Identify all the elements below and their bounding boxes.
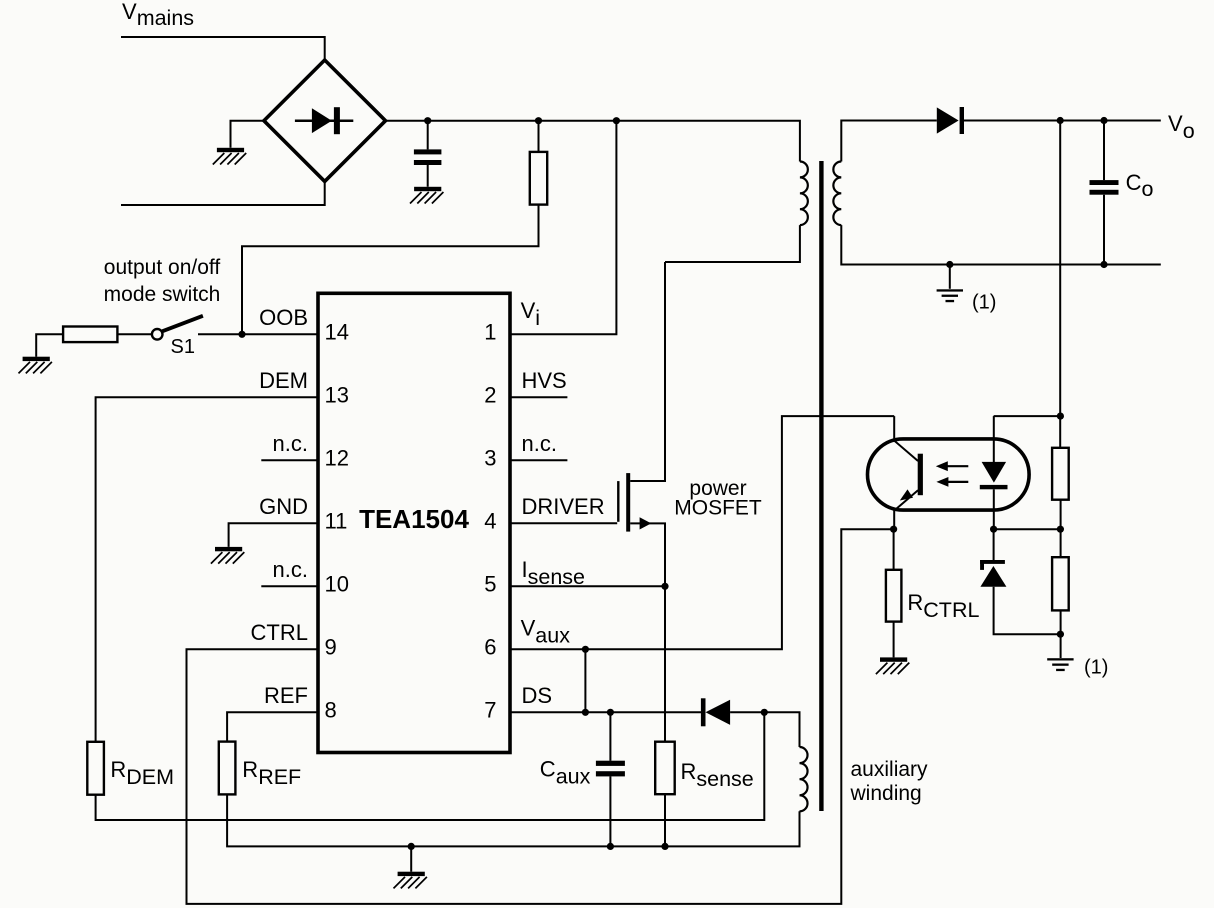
node Rsense bottom [661, 843, 668, 850]
wire RREF bottom / ground rail [227, 794, 799, 846]
svg-text:output on/off: output on/off [104, 256, 221, 279]
svg-text:14: 14 [325, 319, 349, 344]
capacitor (mains filter) [414, 149, 442, 165]
svg-text:CTRL: CTRL [251, 620, 308, 645]
svg-text:REF: REF [264, 683, 308, 708]
inductor transformer primary [800, 162, 808, 226]
wire LED anode [994, 415, 1061, 417]
capacitor Co [1090, 180, 1119, 195]
svg-text:RCTRL: RCTRL [907, 590, 979, 622]
node HV-cap [424, 117, 431, 124]
wire mains bottom [121, 180, 325, 205]
node divider top [1057, 413, 1064, 420]
svg-text:n.c.: n.c. [522, 431, 557, 456]
wire RCTRL leads [893, 529, 895, 657]
svg-text:(1): (1) [1084, 657, 1108, 679]
svg-text:6: 6 [484, 634, 496, 659]
svg-text:8: 8 [325, 697, 337, 722]
capacitor Caux [596, 761, 625, 777]
optocoupler LED [980, 416, 1008, 529]
svg-text:auxiliary: auxiliary [851, 758, 929, 781]
svg-text:n.c.: n.c. [273, 557, 308, 582]
svg-text:DEM: DEM [259, 368, 308, 393]
svg-text:7: 7 [484, 697, 496, 722]
wire sec ground stem [949, 265, 951, 289]
ground [211, 547, 244, 564]
svg-text:Vo: Vo [1168, 111, 1195, 143]
ground [19, 357, 52, 374]
svg-text:Rsense: Rsense [681, 759, 754, 791]
svg-text:TEA1504: TEA1504 [359, 504, 469, 534]
svg-text:2: 2 [484, 382, 496, 407]
wire feedback riser [1059, 121, 1061, 659]
svg-text:Co: Co [1126, 170, 1154, 201]
wire n.c. stub pin 3 [510, 459, 567, 461]
wire DEM [96, 397, 318, 742]
wire Vi [510, 121, 616, 335]
transistor power MOSFET [618, 262, 665, 586]
svg-text:winding: winding [850, 782, 922, 805]
svg-text:13: 13 [325, 382, 349, 407]
diode (output rectifier) [937, 107, 964, 134]
resistor RREF [219, 742, 236, 795]
svg-text:(1): (1) [972, 292, 996, 314]
wire to ground [36, 334, 63, 356]
wire GND pin 11 [229, 523, 318, 547]
svg-text:Vmains: Vmains [122, 0, 194, 30]
bridge rectifier [264, 60, 386, 181]
optocoupler body [868, 439, 1030, 510]
switch S1 [152, 316, 203, 340]
node feedback tap [1057, 117, 1064, 124]
svg-text:4: 4 [484, 508, 496, 533]
ground (1) secondary [937, 289, 963, 302]
resistor RDEM [87, 742, 104, 795]
resistor (startup, to OOB) [530, 152, 547, 205]
node divider mid [1057, 526, 1064, 533]
svg-text:MOSFET: MOSFET [674, 497, 762, 520]
diode (aux rectifier) [701, 698, 730, 726]
wire HVS stub pin 2 [510, 396, 567, 398]
wire n.c. stub pin 10 [261, 585, 318, 587]
wire cap lead [427, 121, 429, 187]
node HV-res [535, 117, 542, 124]
svg-text:Caux: Caux [540, 756, 591, 788]
wire REF [227, 712, 318, 741]
wire HV rail [386, 121, 800, 162]
svg-text:S1: S1 [171, 336, 195, 358]
svg-text:Isense: Isense [522, 557, 586, 589]
inductor transformer secondary [833, 162, 841, 226]
wire n.c. stub pin 12 [261, 459, 318, 461]
node Caux bottom [607, 843, 614, 850]
wire Vaux riser [510, 416, 894, 649]
svg-text:1: 1 [484, 319, 496, 344]
svg-text:DRIVER: DRIVER [522, 494, 605, 519]
wire [117, 333, 151, 335]
svg-text:n.c.: n.c. [273, 431, 308, 456]
svg-text:RDEM: RDEM [110, 757, 174, 789]
svg-text:OOB: OOB [259, 305, 308, 330]
wire Vo rail [964, 120, 1161, 122]
ground (1) divider [1047, 658, 1073, 671]
node Co bottom [1100, 261, 1107, 268]
optocoupler phototransistor [894, 416, 923, 529]
svg-text:HVS: HVS [522, 368, 567, 393]
svg-text:11: 11 [325, 508, 348, 533]
resistor (divider lower) [1052, 557, 1069, 610]
svg-text:GND: GND [259, 494, 308, 519]
wire Vaux-DS link [584, 649, 586, 712]
svg-text:5: 5 [484, 571, 496, 596]
wire RDEM bottom [96, 713, 765, 821]
node zener return [1057, 631, 1064, 638]
wire secondary bottom rail [841, 225, 1161, 264]
svg-text:RREF: RREF [242, 757, 301, 789]
wire DS [510, 711, 701, 713]
node Isense [661, 583, 668, 590]
wire Caux leads [609, 712, 611, 846]
wire ground stem [410, 846, 412, 871]
node OOB [238, 331, 245, 338]
wire secondary top [841, 121, 937, 162]
node opto emitter [890, 526, 897, 533]
op-amp U1 TEA1504 IC body [318, 293, 510, 752]
ground [410, 187, 443, 204]
wire bridge left to ground [231, 121, 264, 148]
wire diode to winding [730, 712, 799, 747]
ground [394, 872, 427, 889]
node HV-Vi [613, 117, 620, 124]
node ground rail [408, 843, 415, 850]
wire Rsense leads [664, 586, 666, 846]
svg-text:Vi: Vi [521, 298, 540, 330]
transformer core [819, 161, 823, 811]
resistor RCTRL [886, 570, 902, 622]
wire Isense [510, 585, 665, 587]
node Vaux-DS link top [582, 646, 589, 653]
node Co top [1100, 117, 1107, 124]
ground [876, 657, 909, 674]
wire primary bottom [665, 225, 800, 262]
zener diode [980, 529, 1060, 634]
svg-text:3: 3 [484, 445, 496, 470]
svg-text:Vaux: Vaux [521, 615, 571, 647]
wire resistor leads [242, 121, 539, 335]
wire CTRL [187, 529, 894, 904]
resistor (divider upper) [1052, 448, 1069, 500]
wire switch to OOB [198, 333, 318, 335]
svg-text:12: 12 [325, 445, 349, 470]
node aux tap [761, 709, 768, 716]
wire mains top [121, 37, 325, 61]
resistor Rsense [655, 742, 675, 795]
node LED cathode [990, 526, 997, 533]
node DS-link [582, 709, 589, 716]
wire DRIVER to gate [510, 522, 617, 524]
inductor auxiliary winding [800, 747, 808, 811]
optocoupler light arrows [936, 461, 969, 487]
svg-text:DS: DS [522, 683, 553, 708]
resistor (switch pull) [63, 327, 117, 343]
node DS-Caux [607, 709, 614, 716]
ground [213, 148, 246, 165]
wire cathode to divider [994, 528, 1061, 530]
svg-text:10: 10 [325, 571, 349, 596]
node sec gnd [946, 261, 953, 268]
svg-text:mode switch: mode switch [104, 283, 221, 306]
svg-text:9: 9 [325, 634, 337, 659]
wire Co leads [1103, 121, 1105, 265]
